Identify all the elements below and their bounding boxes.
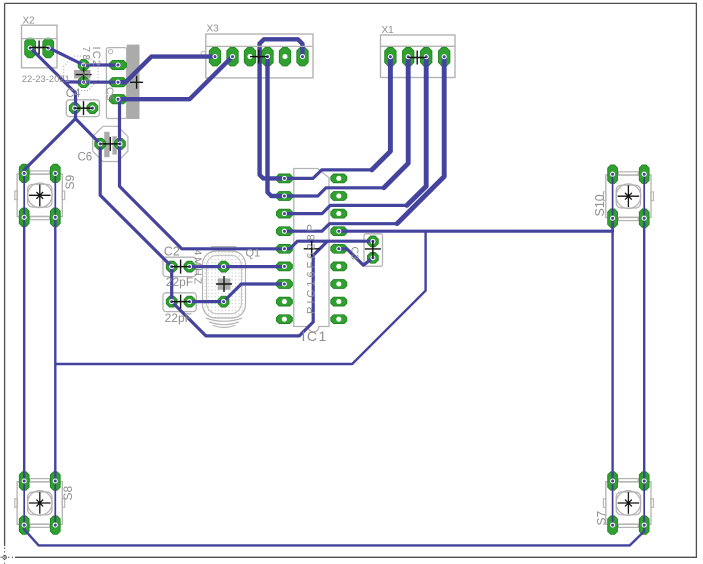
- label IC2: [90, 47, 102, 68]
- svg-text:C3: C3: [349, 247, 361, 261]
- wire S8 internal pad links: [24, 481, 55, 525]
- label 22pF value of C2: [166, 275, 193, 289]
- capacitor C2 outline: [163, 257, 196, 276]
- wire X2 pin2 to C4 plus to IC2 input: [48, 48, 118, 65]
- wire S10 pad3 stub from long run: [611, 218, 613, 231]
- wire S8 pad3 along bottom edge to S7 pad4: [24, 525, 644, 545]
- connector X2 divider line: [22, 38, 58, 40]
- label C6: [78, 152, 93, 164]
- airwire and origin cross C2: [172, 260, 190, 274]
- svg-text:22-23-2021: 22-23-2021: [22, 73, 70, 84]
- svg-text:4MHZ: 4MHZ: [192, 250, 204, 287]
- pad drill holes: [22, 45, 647, 527]
- svg-text:S8: S8: [61, 485, 75, 500]
- capacitor C3 pads: [368, 236, 379, 263]
- capacitor C6 outline: [93, 126, 128, 161]
- capacitor C1 pads: [166, 296, 195, 307]
- svg-text:S9: S9: [63, 174, 77, 189]
- label X3: [207, 24, 220, 35]
- wire IC1 pin15 long run to S10: [339, 230, 613, 233]
- label 22-23-2021: [22, 73, 70, 84]
- button S8 outline: [15, 479, 65, 528]
- connector X2 pads: [25, 38, 54, 58]
- wire X1 pin3 staircase to IC1 pin3: [284, 58, 426, 214]
- label C2: [164, 244, 180, 258]
- wire ground run under IC1 to node at C3 line: [172, 241, 328, 336]
- label C4: [66, 88, 81, 100]
- svg-text:PIC16F628P: PIC16F628P: [306, 221, 318, 314]
- capacitor C5 outline: [66, 100, 99, 117]
- label S8: [61, 485, 75, 500]
- airwire and origin cross C1: [172, 295, 190, 309]
- wire ground branch to C4 minus and IC2 gnd pin: [65, 80, 118, 83]
- label IC1: [302, 328, 328, 344]
- origin cross Q1: [216, 276, 232, 292]
- wire C1 right through crystal bottom to IC1 pin7: [190, 284, 285, 302]
- wire X1 pin2 staircase to IC1 pin2: [284, 58, 408, 197]
- svg-text:C6: C6: [78, 152, 93, 164]
- wire IC2 output to X3 pin2: [118, 57, 232, 100]
- wire S10 pad3 down to S7 pad1: [611, 218, 613, 481]
- wire S9 pad4 column down to S8 pad2: [54, 217, 56, 481]
- airwire and origin cross C5: [75, 101, 93, 115]
- svg-text:X1: X1: [382, 25, 395, 36]
- label C5: [103, 87, 115, 101]
- wire S9 pad3 column down to S8 pad1: [23, 217, 25, 481]
- wire IC1 pin5 to C3 top pad: [284, 241, 373, 249]
- wire X3 pin6 overpass and down to IC1 pin1: [260, 39, 303, 178]
- connector X2 outline: [22, 25, 58, 68]
- connector X3 outline: [201, 34, 313, 78]
- button S10 origin cross: [618, 185, 640, 207]
- wire X1 pin4 staircase to IC1 pin4: [284, 58, 444, 232]
- wire X3 pin4 down to IC1 pin2: [268, 57, 285, 196]
- svg-text:C4: C4: [66, 88, 81, 100]
- wire S10 internal pad links: [613, 174, 645, 218]
- capacitor C6 pads: [95, 139, 126, 150]
- button S9 origin cross: [29, 185, 51, 207]
- label 78L05: [80, 47, 91, 87]
- svg-text:22pF: 22pF: [166, 275, 193, 289]
- label 22pF value of C1: [165, 311, 192, 325]
- wire C6 minus to C2 and C1 left pads: [100, 144, 172, 302]
- button S10 pads: [608, 165, 649, 227]
- label C3: [349, 247, 361, 261]
- label X1: [382, 25, 395, 36]
- wire X2 pin1 ground diagonal to C5 and S9: [24, 48, 75, 174]
- svg-text:S7: S7: [595, 510, 609, 525]
- capacitor C5 pads: [69, 103, 98, 114]
- label S7: [595, 510, 609, 525]
- wire S9 internal pad links: [24, 173, 55, 217]
- crystal Q1 outline: [203, 247, 246, 328]
- capacitor C3 outline: [364, 234, 383, 266]
- svg-text:IC1: IC1: [302, 328, 328, 344]
- regulator IC2 outline and heatsink tab: [106, 45, 139, 119]
- svg-text:IC2: IC2: [90, 47, 102, 68]
- svg-text:C2: C2: [164, 244, 180, 258]
- capacitor C1 outline: [163, 293, 196, 312]
- capacitor C4 pads: [78, 60, 89, 88]
- label Q1: [246, 248, 261, 260]
- regulator IC2 pads: [110, 60, 127, 103]
- svg-text:Q1: Q1: [246, 248, 261, 260]
- svg-text:S10: S10: [593, 194, 607, 216]
- connector X1 pads: [385, 47, 450, 66]
- wire ground branch C5 left to C6 left pad: [76, 119, 101, 144]
- button S9 outline: [15, 171, 65, 220]
- origin cross IC1: [304, 241, 320, 257]
- wire X1 pin1 staircase to IC1 pin1: [284, 58, 390, 179]
- capacitor C4 outline: [64, 56, 98, 90]
- button S8 origin cross: [29, 492, 51, 514]
- wire IC2 output rail down through C6 to IC1 pin5: [120, 99, 285, 249]
- svg-text:X2: X2: [23, 16, 36, 27]
- microcontroller IC1 outline: [294, 169, 329, 333]
- connector X1 divider line: [381, 45, 456, 47]
- microcontroller IC1 pads: [276, 174, 346, 324]
- origin cross IC2: [130, 76, 143, 89]
- button S7 origin cross: [618, 492, 640, 514]
- wire S10 pad4 down to S7 pad2: [643, 218, 645, 481]
- label S10: [593, 194, 607, 216]
- svg-text:C5: C5: [103, 87, 115, 101]
- wire C2 right through crystal top to IC1 pin6: [190, 265, 285, 268]
- button S8 pads: [19, 472, 60, 535]
- svg-text:78L05: 78L05: [80, 47, 91, 87]
- wire ground riser from long horizontal to S9 column: [55, 231, 425, 364]
- button S7 outline: [603, 479, 653, 528]
- label X2: [23, 16, 36, 27]
- svg-text:X3: X3: [207, 24, 220, 35]
- label PIC16F628P: [306, 221, 318, 314]
- connector X1 outline: [381, 35, 456, 78]
- crystal Q1 pads: [218, 261, 231, 307]
- airwire and origin cross C4: [76, 65, 92, 83]
- airwire and origin cross X1: [408, 51, 426, 65]
- capacitor C2 pads: [166, 261, 195, 272]
- connector X3 divider line: [206, 45, 313, 47]
- wire IC1 pin14 to C3 bottom pad: [339, 249, 373, 265]
- airwire and origin cross C3: [365, 241, 381, 258]
- airwire and origin cross X3: [250, 50, 268, 64]
- button S9 pads: [19, 164, 60, 226]
- airwire and origin cross C6: [100, 137, 120, 151]
- label 4MHZ value of Q1: [192, 250, 204, 287]
- wire IC2 gnd pin to X3 pin1: [118, 57, 215, 83]
- label S9: [63, 174, 77, 189]
- svg-text:22pF: 22pF: [165, 311, 192, 325]
- wire S7 internal pad links: [613, 481, 645, 525]
- button S7 pads: [608, 472, 649, 535]
- button S10 outline: [603, 172, 653, 221]
- connector X3 pads: [209, 47, 308, 66]
- airwire and origin cross X2: [30, 41, 48, 55]
